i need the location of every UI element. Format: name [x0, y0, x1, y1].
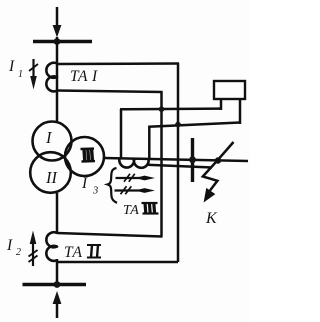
svg-text:TA I: TA I — [70, 68, 98, 85]
parallel feeder line (lower) — [147, 165, 212, 168]
differential circuit wire vB — [160, 91, 163, 237]
wire winding II to TAII — [56, 193, 59, 234]
CT TAIII winding bumps — [119, 159, 148, 168]
differential circuit wire vA — [177, 63, 180, 262]
junction dot h4-vA — [175, 122, 181, 128]
I3 arrow 1 double slash — [124, 174, 130, 182]
svg-text:3: 3 — [92, 186, 98, 197]
TAII secondary lead h6 — [57, 233, 163, 237]
top bus — [33, 40, 92, 43]
svg-text:1: 1 — [18, 69, 23, 80]
TAIII secondary lead left — [120, 109, 123, 158]
wire bus to winding I (primary through TAI) — [56, 37, 59, 123]
junction dot top bus — [54, 38, 61, 45]
svg-text:I: I — [45, 128, 53, 147]
I3 arrow 2 double slash — [121, 186, 127, 194]
winding circle III — [65, 137, 104, 176]
relay box KA — [214, 81, 245, 99]
junction dot h3-vB — [159, 106, 165, 112]
I1 arrow slash — [29, 64, 38, 71]
svg-text:I: I — [8, 58, 15, 75]
wire winding III output h5 — [104, 158, 248, 161]
brace I3 — [108, 168, 117, 203]
fault dot on line — [215, 157, 221, 163]
I3 arrow 2 — [115, 189, 141, 191]
winding circle II — [30, 152, 71, 193]
relay right lead — [239, 99, 242, 124]
svg-text:I: I — [6, 237, 13, 254]
relay left lead — [220, 99, 223, 110]
CT TAII winding bumps — [46, 232, 57, 261]
svg-text:K: K — [205, 210, 218, 227]
right bus — [191, 138, 194, 182]
bottom feeder wire — [56, 302, 59, 318]
bottom bus — [23, 283, 87, 286]
svg-text:TA: TA — [64, 244, 83, 261]
CT TAI winding bumps — [46, 63, 57, 92]
wire TAII to bottom bus — [56, 259, 59, 285]
winding circle I — [33, 122, 72, 161]
I2 arrow double slash — [29, 250, 38, 257]
svg-text:TA: TA — [123, 203, 139, 218]
I2 current arrow — [32, 243, 34, 266]
svg-text:2: 2 — [16, 247, 21, 258]
I3 arrow 1 — [116, 177, 141, 179]
junction dot right bus — [189, 156, 196, 163]
bottom feeder arrowhead (up) — [53, 291, 62, 304]
top feeder wire — [56, 7, 59, 28]
TAIII secondary lead right — [148, 126, 151, 159]
junction dot bottom bus — [54, 281, 61, 288]
TAII secondary lead h7 — [57, 261, 178, 264]
label III (circle III, dark) — [81, 149, 96, 162]
lightning fault arrow — [203, 142, 234, 191]
relay wire h3 — [120, 107, 221, 110]
TAI secondary lead h2 — [57, 91, 163, 93]
top feeder arrowhead — [53, 25, 62, 38]
svg-text:I: I — [81, 175, 88, 192]
I1 current arrow — [32, 59, 34, 79]
TAI secondary lead h1 — [57, 62, 179, 65]
svg-text:II: II — [45, 168, 58, 187]
relay wire h4 — [148, 123, 240, 127]
